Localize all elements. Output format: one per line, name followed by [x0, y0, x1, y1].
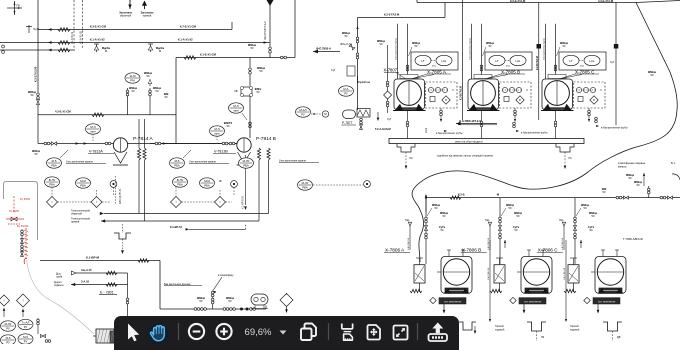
svg-text:Dy 50/100: Dy 50/100	[17, 225, 29, 228]
gray leader curve to E-7801	[27, 260, 95, 334]
pump P-7814 A	[88, 136, 154, 165]
red insulated line with ticks	[24, 228, 28, 258]
svg-text:X-7807: X-7807	[384, 68, 398, 73]
svg-text:обратный: обратный	[71, 212, 82, 215]
toolbar zoom-in button	[216, 324, 231, 339]
svg-text:З.Б-2-КН-50: З.Б-2-КН-50	[564, 267, 566, 280]
spring hangers pump A discharge	[137, 148, 146, 160]
svg-text:Dy 50/50: Dy 50/50	[20, 198, 31, 201]
vessel X-7805 B drum	[469, 75, 498, 111]
flanges pump B inlet	[224, 96, 252, 138]
svg-text:Узел крепления кровли: Узел крепления кровли	[66, 161, 94, 164]
toolbar fit page icon	[368, 325, 381, 340]
connector Технологический прямой	[71, 218, 105, 224]
svg-text:45м: 45м	[432, 66, 436, 68]
bottoms line X-7805 C	[554, 111, 557, 139]
pipe К.2-3-ГАЗ-М	[358, 3, 446, 18]
toolbar zoom dropdown caret	[280, 331, 287, 335]
funnel drain symbol	[114, 224, 131, 254]
discharge risers pump A	[126, 86, 168, 221]
svg-text:СБТ ЗЕМЛЯНОЙ: СБТ ЗЕМЛЯНОЙ	[598, 300, 616, 303]
note Атмосферные каналы	[618, 162, 676, 169]
svg-text:М: М	[105, 49, 107, 53]
feed drop X-7806 A	[424, 198, 448, 264]
svg-text:К.1-А-У1-52: К.1-А-У1-52	[80, 30, 83, 44]
svg-text:смес (на сбор продукт): смес (на сбор продукт)	[455, 139, 483, 143]
unit A side column	[377, 39, 392, 113]
svg-text:4.3-Б-У11-М: 4.3-Б-У11-М	[598, 0, 614, 3]
vessel X-7805 A drum	[395, 75, 424, 111]
svg-text:в бак крепления трубы: в бак крепления трубы	[436, 132, 463, 135]
svg-text:Ж-М: Ж-М	[130, 74, 137, 78]
svg-text:подовый: подовый	[570, 328, 580, 331]
svg-text:в атмосферу: в атмосферу	[218, 273, 234, 277]
svg-text:К.3-2.ГАЗ.50: К.3-2.ГАЗ.50	[34, 66, 38, 82]
svg-text:РУ: РУ	[24, 339, 28, 343]
header down-arrow Заголовок обратный	[119, 0, 133, 18]
svg-text:РБА: РБА	[51, 163, 57, 167]
svg-text:каналы: каналы	[618, 166, 627, 169]
svg-text:Зона крепления трубы: Зона крепления трубы	[544, 38, 546, 60]
revision cloud diagonal	[412, 3, 677, 263]
valve stack x212.7	[197, 291, 216, 310]
toolbar zoom-out button	[189, 324, 204, 339]
svg-text:подобные н/д каналов сталось о: подобные н/д каналов сталось операций те…	[437, 155, 493, 158]
level box X-7805 B	[485, 52, 532, 70]
feed drop X-7806 C	[573, 198, 597, 264]
svg-text:LT: LT	[421, 59, 424, 63]
spring feed X-7806 B	[490, 289, 502, 292]
suction valves left	[32, 142, 87, 156]
svg-text:РМ: РМ	[130, 78, 135, 82]
svg-text:Т-7806 А/В/С/D: Т-7806 А/В/С/D	[623, 237, 643, 241]
svg-text:ЖГЦ-О-Н: ЖГЦ-О-Н	[340, 43, 351, 46]
svg-text:В-ЛУ: В-ЛУ	[49, 178, 56, 182]
rotated tag К.1-ЛР-Б-У1	[242, 155, 247, 210]
svg-text:М-Л: М-Л	[214, 127, 219, 131]
vessel X-7806 A	[437, 250, 472, 293]
gray zone boundary	[4, 182, 38, 241]
viewer toolbar	[114, 316, 459, 350]
svg-text:P-7814 A: P-7814 A	[133, 136, 154, 142]
svg-text:М-ЛУ: М-ЛУ	[243, 159, 250, 163]
branch to right edge	[636, 1, 680, 3]
pipe stub left	[0, 48, 75, 52]
suction line to pump B	[150, 142, 237, 145]
wire riser x295	[294, 0, 296, 58]
relief diamond	[280, 293, 293, 313]
feed pump P-7877 group	[339, 86, 371, 129]
svg-text:LAL: LAL	[442, 59, 447, 63]
svg-text:М-М: М-М	[204, 179, 210, 183]
vessel E-7801 drawing	[93, 329, 116, 343]
svg-text:труба: труба	[56, 276, 63, 279]
svg-text:P: P	[445, 98, 447, 102]
svg-text:X-7806 B: X-7806 B	[462, 248, 482, 253]
svg-text:АВБ.ГД.РУ-У1: АВБ.ГД.РУ-У1	[119, 188, 122, 204]
svg-text:Тх-АЛ: Тх-АЛ	[22, 321, 30, 325]
feed drop X-7805 B	[470, 24, 495, 79]
toolbar present to device icon	[429, 323, 448, 342]
steam connector X-7806 B	[485, 219, 492, 250]
svg-text:М-5: М-5	[23, 335, 28, 339]
svg-text:М-АЛ: М-АЛ	[299, 108, 306, 112]
note Узел крепления кровли A	[66, 161, 106, 164]
pipe К.1-А-У1-52	[0, 38, 270, 45]
svg-text:РУ: РУ	[301, 112, 305, 116]
discharge risers pump B	[259, 160, 269, 221]
svg-text:СуГа: СуГа	[426, 127, 428, 133]
svg-text:обратный: обратный	[120, 15, 132, 18]
svg-text:Пар: Пар	[405, 219, 410, 222]
unit label X-7806 C	[537, 248, 563, 253]
feed drop X-7805 C	[544, 24, 569, 79]
pump suction header	[38, 143, 237, 145]
line К.1-ВР-51	[170, 224, 246, 231]
svg-text:М: М	[159, 49, 161, 53]
svg-text:в бак крепления трубы: в бак крепления трубы	[601, 127, 628, 130]
steam connector X-7806 A	[405, 219, 412, 250]
svg-text:ДВ: ДВ	[617, 336, 621, 339]
toolbar fullscreen icon	[394, 326, 408, 340]
up arrow C	[580, 240, 582, 248]
off-page connector Ф-Е.7803-А	[313, 47, 340, 54]
drain collector line 2	[101, 220, 259, 222]
riser label C	[564, 240, 567, 322]
svg-text:мин: мин	[233, 108, 238, 112]
svg-text:З.Б-2-КН-50: З.Б-2-КН-50	[562, 237, 564, 250]
valve cluster unit A inlet	[340, 31, 359, 83]
svg-text:4.3-Б-У1-СМ: 4.3-Б-У1-СМ	[55, 110, 71, 114]
svg-text:РБА: РБА	[177, 182, 183, 186]
note Узел крепления кровли C	[239, 158, 320, 168]
svg-text:Бак крепления дренаж: Бак крепления дренаж	[164, 283, 191, 286]
hatched label box X-7806 B	[510, 297, 546, 304]
toolbar copy pages icon	[301, 324, 316, 341]
svg-text:З.Б-А.15: З.Б-А.15	[81, 268, 92, 272]
note Бак крепления дренаж	[164, 283, 202, 286]
instrument bubble LG A	[47, 150, 69, 168]
svg-text:К.2-Б.ГАЗ.М: К.2-Б.ГАЗ.М	[536, 56, 539, 70]
toolbar hand tool icon	[149, 324, 169, 344]
right edge instrument cluster	[626, 173, 680, 186]
wire drop x127.5	[126, 273, 129, 317]
bottoms line X-7805 A	[406, 111, 409, 139]
spring feed X-7806 C	[564, 289, 576, 292]
instrument bubble PI pump B	[210, 126, 225, 141]
svg-text:М-М: М-М	[80, 179, 86, 183]
svg-text:К.2-Б: К.2-Б	[458, 193, 465, 197]
toolbar separator 2	[328, 323, 330, 340]
svg-text:Р-7877: Р-7877	[342, 121, 353, 125]
svg-text:ПК: ПК	[17, 4, 21, 8]
sample bubble ЖМ РМ	[125, 71, 153, 86]
label X-7807	[384, 68, 407, 80]
svg-text:К.1-А-У1-52: К.1-А-У1-52	[90, 38, 105, 42]
svg-text:З.Б-2-КН-50: З.Б-2-КН-50	[408, 237, 410, 250]
wire drop x160	[159, 261, 161, 310]
drain connector Дуршл подвесы	[54, 280, 128, 287]
svg-text:V-7813A: V-7813A	[89, 150, 103, 154]
svg-text:45м: 45м	[580, 66, 584, 68]
north compass symbol	[7, 1, 22, 15]
instrument panel X-7805 B	[500, 82, 532, 108]
instrument bubble cluster 2	[173, 177, 238, 188]
level box X-7805 C	[559, 52, 606, 70]
red future line Dy 50/50	[9, 196, 31, 214]
svg-text:45м: 45м	[506, 66, 510, 68]
vent symbol Труба	[26, 25, 40, 33]
svg-text:P: P	[593, 98, 595, 102]
svg-text:СБТ ЗЕМЛЯНОЙ: СБТ ЗЕМЛЯНОЙ	[444, 300, 462, 303]
svg-text:РБА: РБА	[243, 163, 249, 167]
ground funnel A	[459, 322, 476, 334]
svg-text:РБА: РБА	[174, 163, 180, 167]
toolbar cursor tool icon	[128, 324, 139, 342]
svg-text:Пар: Пар	[485, 219, 490, 222]
unit separator riser x538	[536, 3, 541, 121]
svg-text:Т.2-А-GAS-М: Т.2-А-GAS-М	[375, 127, 391, 131]
vessel X-7805 C drum	[543, 75, 572, 111]
svg-text:прямой: прямой	[71, 220, 80, 223]
hatched label box X-7806 A	[430, 297, 466, 304]
unit label X-7806 B	[461, 248, 487, 253]
vessel X-7805 C shell	[541, 79, 574, 111]
label X-7805 A	[411, 70, 451, 80]
svg-text:З.Б-2-КН-50: З.Б-2-КН-50	[488, 267, 490, 280]
collector support 1	[397, 144, 415, 170]
svg-text:LAL: LAL	[516, 59, 521, 63]
svg-text:В 1-: В 1-	[671, 162, 676, 165]
vent connector Дых.труба	[56, 268, 128, 278]
svg-text:Н-Х-7806-49Т-2-У: Н-Х-7806-49Т-2-У	[459, 119, 481, 123]
svg-text:М-ЛУ: М-ЛУ	[5, 322, 12, 326]
riser x616 with block	[610, 3, 657, 126]
unit label X-7806 A	[384, 248, 410, 253]
svg-text:М-5: М-5	[6, 336, 11, 340]
toolbar snapshot tool icon	[342, 324, 353, 341]
red hook mark	[24, 258, 27, 264]
svg-text:К.1-ВР-51: К.1-ВР-51	[170, 225, 183, 229]
wire riser x250 with flanges	[249, 58, 266, 87]
level box X-7805 A	[411, 52, 458, 70]
left edge markers	[2, 45, 5, 53]
instrument panel X-7805 C	[574, 82, 606, 108]
bottom header to flare	[160, 306, 266, 311]
drain collector bar	[389, 139, 584, 144]
svg-text:X-7806 C: X-7806 C	[538, 248, 558, 253]
svg-text:LAL: LAL	[590, 59, 595, 63]
stand X-7806 B	[494, 258, 505, 292]
svg-text:К.2-3-ГАЗ-М: К.2-3-ГАЗ-М	[384, 13, 400, 17]
drain X-7805 A	[440, 108, 443, 122]
svg-text:P: P	[519, 98, 521, 102]
wire riser x270 with flanges	[248, 0, 274, 58]
svg-text:К.3-Б.ГАЗ.М: К.3-Б.ГАЗ.М	[460, 86, 463, 100]
svg-text:Зона крепления трубы: Зона крепления трубы	[396, 38, 398, 60]
vent to atmosphere leader	[213, 273, 234, 291]
svg-text:РУ: РУ	[6, 340, 10, 344]
svg-text:К.2-Б-У11-М: К.2-Б-У11-М	[510, 0, 526, 3]
svg-text:Горячий: Горячий	[570, 325, 579, 328]
toolbar separator 3	[417, 323, 419, 340]
sample capsule	[251, 294, 268, 309]
wire riser x176	[175, 58, 177, 144]
svg-text:X-7806 A: X-7806 A	[385, 248, 405, 253]
drain note A	[426, 127, 463, 135]
instrument oval extra	[298, 180, 371, 190]
rotated tag АВБ.ГД.РУ	[116, 176, 123, 204]
black valve stack left	[21, 229, 24, 256]
label X-7805 C	[559, 70, 599, 80]
svg-text:Ф-Е.7803-А: Ф-Е.7803-А	[316, 47, 331, 51]
svg-text:в бак крепления трубы: в бак крепления трубы	[521, 132, 548, 135]
svg-text:подовый: подовый	[495, 328, 505, 331]
vessel X-7806 B	[517, 250, 552, 293]
drain note C	[595, 117, 628, 129]
svg-text:М-Л: М-Л	[90, 125, 95, 129]
interlock diamond bl-1	[0, 295, 10, 317]
svg-text:LT: LT	[569, 59, 572, 63]
dashed branch lines with rotated labels	[71, 0, 83, 48]
svg-text:М-Л: М-Л	[233, 104, 238, 108]
vessel X-7805 A shell	[393, 79, 426, 111]
steam connector X-7806 C	[559, 219, 566, 250]
header up-arrow Заголовок прямой	[141, 1, 155, 18]
svg-text:М-5: М-5	[52, 159, 57, 163]
svg-text:Зона крепления трубы: Зона крепления трубы	[470, 38, 472, 60]
label E-7801	[99, 291, 117, 295]
red valve group	[6, 217, 29, 228]
instrument bubble PI pump A	[86, 124, 101, 141]
svg-text:РБА: РБА	[80, 183, 86, 187]
cooler box on riser x250	[234, 87, 261, 97]
connector Технологический обратный	[71, 210, 104, 216]
drain X-7805 C	[588, 108, 591, 122]
stand X-7806 C	[568, 258, 579, 292]
instrument bubbles bottom-left	[1, 319, 34, 345]
bottoms line X-7805 B	[480, 111, 483, 139]
note Узел крепления кровли B	[189, 161, 229, 164]
svg-text:М-ЛУ: М-ЛУ	[302, 181, 309, 185]
ground funnel C	[570, 322, 622, 341]
svg-text:РБА: РБА	[204, 183, 210, 187]
unit separator riser x462	[460, 0, 463, 120]
svg-text:Dy 50/50: Dy 50/50	[9, 210, 20, 213]
svg-text:К.1-ВР-М: К.1-ВР-М	[86, 256, 99, 260]
feed drop X-7806 B	[498, 198, 522, 264]
svg-text:СБТ ЗЕМЛЯНОЙ: СБТ ЗЕМЛЯНОЙ	[524, 300, 542, 303]
svg-text:РБА: РБА	[49, 182, 55, 186]
stand X-7806 A	[414, 258, 425, 292]
instrument bubble cluster 1	[45, 177, 117, 188]
drain arrow X-7806 B	[523, 304, 526, 314]
header К.2-Б drop area	[425, 193, 680, 212]
svg-text:E - 7801: E - 7801	[100, 291, 114, 295]
svg-text:Горячий: Горячий	[495, 325, 504, 328]
svg-text:М-5: М-5	[175, 159, 180, 163]
feed riser x357	[356, 18, 358, 111]
svg-text:Сухой газ: Сухой газ	[358, 81, 371, 84]
valve group bottom-left	[37, 318, 51, 342]
svg-text:мин: мин	[90, 129, 95, 133]
svg-text:ЧАК-ВП-ФГУ-А-У: ЧАК-ВП-ФГУ-А-У	[264, 21, 267, 40]
svg-text:ПК: ПК	[541, 336, 545, 339]
pipe К.3-Б-У1-СМ	[38, 22, 232, 31]
pipe 4.3-Б-У1-СМ	[38, 110, 176, 117]
svg-text:К.3-Б-У1-СМ: К.3-Б-У1-СМ	[90, 25, 107, 29]
drain collector line 1	[104, 213, 269, 215]
gas header К.2-Б-У11-М	[417, 0, 636, 3]
svg-text:LT: LT	[495, 59, 498, 63]
riser label B	[488, 240, 491, 322]
transmitter group right of pump B	[296, 107, 329, 117]
drain arrow X-7806 C	[597, 304, 600, 314]
connector Т.2-А-GAS-М	[375, 112, 392, 131]
drip leg valve 1	[94, 44, 110, 53]
drain X-7805 B	[514, 108, 517, 122]
drain note B	[513, 122, 548, 134]
spring hangers pump B discharge	[257, 148, 270, 160]
svg-text:Узел крепления кровли: Узел крепления кровли	[279, 160, 307, 163]
interlock diamonds cluster 1	[47, 187, 114, 208]
pipe К.1-Б-У1-СМ	[176, 53, 295, 60]
svg-text:прямой: прямой	[143, 15, 152, 18]
svg-text:СуГ: СуГ	[610, 61, 615, 64]
svg-text:В-ЛУ: В-ЛУ	[177, 178, 184, 182]
svg-text:подвесы: подвесы	[54, 284, 64, 287]
riser pipe К.3-2-ГАЗ-50	[34, 0, 39, 144]
instrument panel X-7805 A	[426, 82, 458, 108]
up arrow B	[504, 240, 506, 248]
svg-text:К.1-ЛР-Б-У1: К.1-ЛР-Б-У1	[242, 195, 245, 209]
pump P-7814 B	[213, 136, 276, 165]
ground funnel B	[495, 322, 546, 341]
feed drop X-7805 A	[396, 24, 421, 79]
spring feed X-7806 A	[410, 289, 422, 292]
vessel X-7806 C	[591, 250, 626, 293]
instrument bubble LG B	[170, 150, 192, 168]
svg-text:К.7-Б-У1-СМ: К.7-Б-У1-СМ	[180, 25, 197, 29]
drip leg valve 2	[148, 44, 164, 53]
toolbar separator 1	[178, 323, 180, 340]
svg-text:К.1-А-У1-52: К.1-А-У1-52	[178, 38, 193, 42]
collector support 2	[556, 144, 574, 170]
instrument bubble pump B top	[229, 103, 248, 120]
hatched label box X-7806 C	[584, 297, 620, 304]
valve station on riser x38	[28, 90, 40, 105]
interlock diamonds cluster 2	[171, 187, 235, 208]
svg-text:СуГ: СуГ	[331, 68, 336, 72]
drain arrow X-7806 A	[443, 304, 446, 314]
vessel X-7805 B shell	[467, 79, 500, 111]
svg-text:М-А: М-А	[343, 87, 348, 91]
svg-text:КВ: КВ	[234, 90, 237, 93]
svg-text:РУ: РУ	[6, 326, 10, 330]
interlock diamond bl-2	[17, 294, 30, 317]
svg-text:V-7813B: V-7813B	[214, 150, 228, 154]
svg-text:РБА: РБА	[302, 185, 308, 189]
svg-text:СуГ: СуГ	[387, 118, 392, 121]
note подводные каналы	[437, 155, 493, 158]
label X-7805 B	[485, 70, 525, 80]
pipe К.1-ВР-М	[40, 256, 160, 263]
svg-text:РУ: РУ	[344, 91, 348, 95]
svg-text:Узел крепления кровли: Узел крепления кровли	[189, 161, 217, 164]
svg-text:Пар: Пар	[559, 219, 564, 222]
svg-text:З-А 16: З-А 16	[81, 280, 90, 284]
connector Н-Х-7806	[456, 119, 497, 125]
